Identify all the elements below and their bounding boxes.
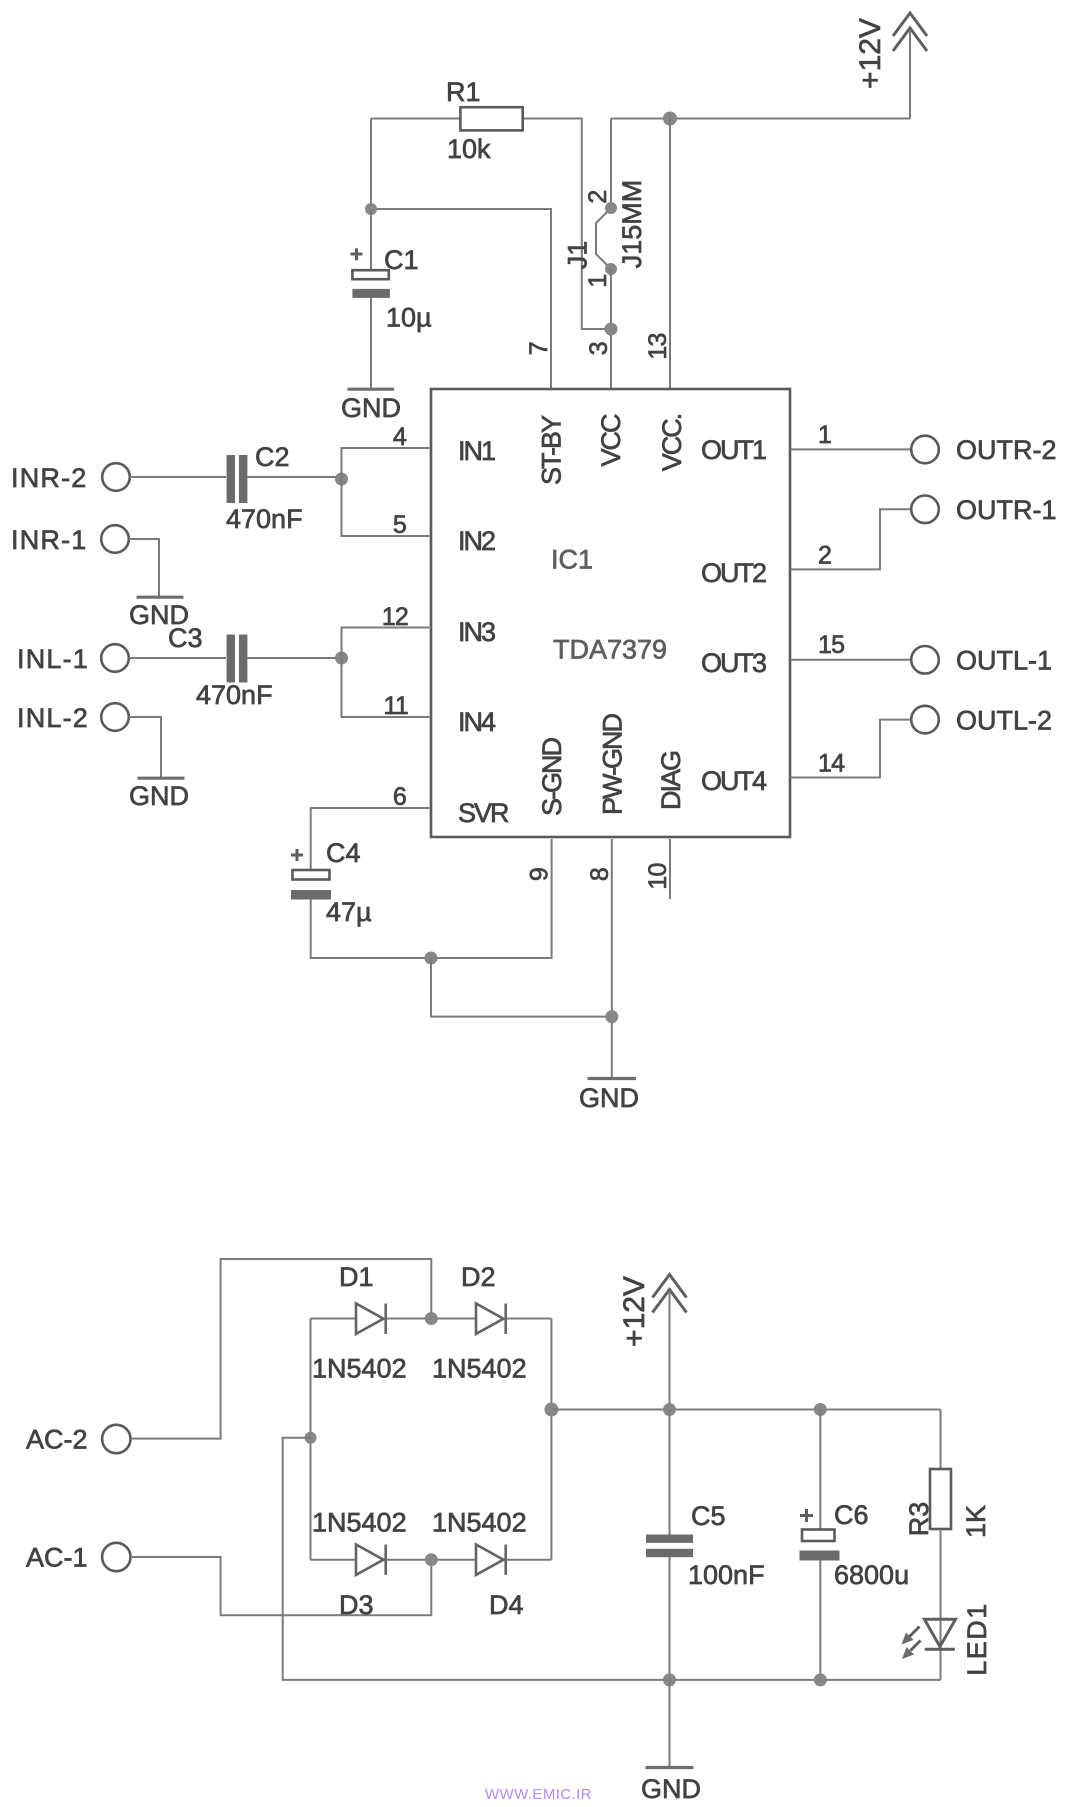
wire INL-1 to C3: [129, 657, 226, 659]
svg-text:9: 9: [526, 868, 554, 881]
svg-text:GND: GND: [579, 1083, 639, 1113]
svg-text:D3: D3: [339, 1590, 374, 1620]
capacitor C6: [800, 1500, 910, 1590]
svg-text:INR-1: INR-1: [11, 525, 88, 555]
node junction C4: [425, 952, 438, 965]
svg-text:15: 15: [818, 631, 844, 659]
ground INR-1: [129, 597, 189, 630]
svg-text:14: 14: [818, 750, 845, 778]
svg-text:OUT2: OUT2: [701, 558, 766, 588]
svg-text:WWW.EMIC.IR: WWW.EMIC.IR: [485, 1786, 592, 1803]
svg-text:IN1: IN1: [458, 436, 495, 466]
wire to C1: [370, 209, 372, 270]
wire J1 pin1 to pin 3 of IC: [610, 269, 612, 388]
svg-text:1N5402: 1N5402: [312, 1508, 407, 1538]
svg-text:2: 2: [818, 542, 831, 570]
wire C2 to junction: [248, 476, 342, 478]
wire C6 leads: [819, 1410, 821, 1530]
wire pins 12/11: [342, 628, 432, 718]
diode D1: [312, 1262, 407, 1384]
svg-text:C5: C5: [691, 1501, 726, 1531]
node junction C3: [335, 652, 348, 665]
diode D3: [312, 1508, 407, 1621]
svg-text:OUT1: OUT1: [701, 435, 766, 465]
wire junction down to pin 8 line: [431, 958, 612, 1017]
connector AC-1: [26, 1543, 131, 1573]
svg-text:INL-2: INL-2: [17, 703, 89, 733]
svg-text:11: 11: [384, 692, 408, 720]
wire AC-1 to bridge bottom: [131, 1557, 431, 1615]
svg-text:100nF: 100nF: [688, 1560, 765, 1590]
connector INL-1: [17, 644, 129, 674]
wire C5 leads: [669, 1410, 671, 1536]
capacitor C5: [646, 1501, 765, 1590]
connector OUTR-2: [911, 435, 1056, 465]
connector AC-2: [26, 1425, 131, 1455]
svg-text:GND: GND: [641, 1774, 701, 1804]
svg-text:AC-2: AC-2: [26, 1425, 88, 1455]
svg-text:6: 6: [393, 783, 406, 811]
diode D4: [432, 1508, 527, 1621]
svg-text:1N5402: 1N5402: [312, 1354, 407, 1384]
wire INL-2 to ground: [129, 717, 161, 777]
svg-text:LED1: LED1: [962, 1602, 992, 1676]
ground bottom: [641, 1768, 701, 1805]
op-amp IC1 TDA7379 body: [431, 389, 790, 837]
svg-text:+12V: +12V: [618, 1276, 651, 1347]
svg-text:IN3: IN3: [458, 617, 495, 647]
svg-text:OUTR-2: OUTR-2: [956, 435, 1057, 465]
wire C3 to junction: [248, 657, 342, 659]
svg-text:IN2: IN2: [458, 526, 495, 556]
wire left vertical from R1: [370, 119, 372, 210]
wire +12V bottom stem: [669, 1291, 671, 1410]
svg-text:10k: 10k: [447, 134, 491, 164]
svg-text:1K: 1K: [961, 1505, 991, 1538]
node junction C5 top: [663, 1403, 676, 1416]
wire bridge bottom: [311, 1559, 357, 1561]
capacitor C4: [291, 838, 372, 927]
svg-text:R1: R1: [446, 77, 481, 107]
wire pin 2 to OUTR-1: [790, 509, 910, 569]
node junction +12V rail: [663, 112, 677, 126]
svg-text:D1: D1: [339, 1262, 374, 1292]
resistor R1: [446, 77, 523, 164]
svg-text:4: 4: [393, 423, 407, 451]
node junction above C1: [365, 203, 377, 215]
node junction AC-2 bridge: [425, 1312, 438, 1325]
wire +12V rail to pin2 column: [611, 118, 910, 120]
node junction bridge positive: [544, 1403, 558, 1417]
diode D2: [432, 1262, 527, 1384]
svg-text:470nF: 470nF: [226, 504, 303, 534]
svg-text:VCC.: VCC.: [657, 414, 687, 471]
node junction C5 bottom: [663, 1673, 676, 1686]
svg-text:+12V: +12V: [854, 18, 887, 89]
connector OUTL-2: [911, 705, 1052, 735]
svg-text:1: 1: [584, 274, 612, 287]
svg-text:GND: GND: [129, 781, 189, 811]
svg-text:10µ: 10µ: [386, 303, 432, 333]
svg-text:R3: R3: [904, 1502, 934, 1537]
svg-text:C6: C6: [834, 1500, 869, 1530]
wire bridge left side: [310, 1319, 312, 1560]
ground under C1: [341, 389, 401, 423]
svg-text:7: 7: [525, 342, 553, 355]
svg-text:6800u: 6800u: [834, 1560, 909, 1590]
capacitor C3: [168, 623, 273, 710]
capacitor C2: [226, 442, 303, 534]
svg-text:ST-BY: ST-BY: [537, 415, 567, 485]
svg-text:C1: C1: [384, 245, 419, 275]
wire bridge right side: [550, 1319, 552, 1560]
svg-text:D4: D4: [489, 1590, 524, 1620]
svg-text:AC-1: AC-1: [26, 1543, 88, 1573]
wire negative rail: [283, 1438, 941, 1680]
svg-text:OUT4: OUT4: [701, 766, 767, 796]
svg-text:IC1: IC1: [551, 545, 593, 575]
svg-text:47µ: 47µ: [326, 897, 372, 927]
connector INL-2: [17, 703, 129, 733]
node junction C6 top: [814, 1403, 827, 1416]
wire pin 15: [790, 659, 910, 661]
svg-text:5: 5: [393, 511, 406, 539]
ground INL-2: [129, 778, 189, 811]
svg-text:S-GND: S-GND: [537, 738, 567, 817]
ground pin 8: [579, 1079, 639, 1114]
capacitor C1: [351, 245, 432, 333]
connector INR-1: [11, 525, 129, 555]
LED LED1: [902, 1602, 993, 1676]
wire pin 14 to OUTL-2: [790, 720, 910, 778]
svg-text:8: 8: [586, 868, 614, 881]
wire junction to pin 7: [371, 209, 551, 388]
wire R1 right lead: [523, 119, 611, 330]
connector OUTL-1: [911, 646, 1052, 676]
svg-text:J15MM: J15MM: [617, 180, 647, 269]
wire AC-2 to bridge top: [131, 1259, 431, 1439]
connector OUTR-1: [911, 495, 1056, 525]
svg-text:OUT3: OUT3: [701, 648, 766, 678]
svg-text:INR-2: INR-2: [11, 463, 88, 493]
wire pin 1: [790, 448, 910, 450]
svg-text:GND: GND: [341, 393, 401, 423]
svg-text:10: 10: [644, 863, 672, 889]
svg-text:IN4: IN4: [458, 707, 496, 737]
svg-text:TDA7379: TDA7379: [553, 635, 667, 665]
svg-text:OUTL-1: OUTL-1: [956, 646, 1052, 676]
svg-text:PW-GND: PW-GND: [598, 714, 628, 815]
svg-text:3: 3: [585, 342, 613, 355]
wire R3 to LED to rail: [940, 1529, 942, 1680]
svg-text:INL-1: INL-1: [17, 644, 89, 674]
node junction pin3: [605, 323, 618, 336]
wire C1 to ground: [370, 298, 372, 388]
wire pin 6 SVR: [311, 808, 431, 870]
wire ground stem bottom: [669, 1680, 671, 1767]
svg-text:D2: D2: [461, 1262, 496, 1292]
svg-text:1N5402: 1N5402: [432, 1508, 527, 1538]
svg-text:OUTR-1: OUTR-1: [956, 495, 1057, 525]
wire pin 13: [669, 119, 671, 389]
svg-text:OUTL-2: OUTL-2: [956, 705, 1052, 735]
power +12V top arrow: [854, 13, 927, 89]
svg-text:C3: C3: [168, 623, 203, 653]
wire INR-2 to C2: [130, 476, 226, 478]
svg-text:DIAG: DIAG: [656, 752, 686, 810]
svg-text:C4: C4: [326, 838, 361, 868]
connector INR-2: [11, 463, 130, 493]
svg-text:470nF: 470nF: [196, 680, 273, 710]
wire positive rail: [551, 1409, 940, 1411]
wire +12V stem: [909, 30, 911, 119]
wire R1 left lead: [371, 118, 460, 120]
wire bridge top: [311, 1318, 357, 1320]
svg-text:J1: J1: [563, 241, 593, 270]
svg-text:2: 2: [584, 190, 612, 203]
node junction pin 8: [605, 1010, 618, 1023]
resistor R3: [904, 1469, 991, 1538]
svg-text:1: 1: [818, 421, 831, 449]
svg-text:13: 13: [644, 333, 672, 359]
wire pin 10 stub: [669, 839, 671, 899]
power +12V bottom arrow: [618, 1275, 687, 1347]
svg-text:SVR: SVR: [458, 798, 509, 828]
svg-text:C2: C2: [255, 442, 290, 472]
node junction bridge negative: [305, 1432, 317, 1444]
node junction C6 bottom: [814, 1673, 827, 1686]
svg-text:VCC: VCC: [596, 414, 626, 467]
svg-text:1N5402: 1N5402: [432, 1354, 527, 1384]
node junction C2: [335, 473, 348, 486]
wire R3 top lead: [940, 1410, 942, 1470]
wire pin 8 to ground: [611, 839, 613, 1077]
wire pin 2 of J1 up to rail: [610, 119, 612, 209]
node junction AC-1 bridge: [425, 1553, 438, 1566]
wire C4 to junction: [311, 839, 552, 958]
wire INR-1 to ground: [129, 539, 159, 596]
jumper J1: [563, 180, 648, 288]
wire pins 4/5: [342, 448, 432, 536]
